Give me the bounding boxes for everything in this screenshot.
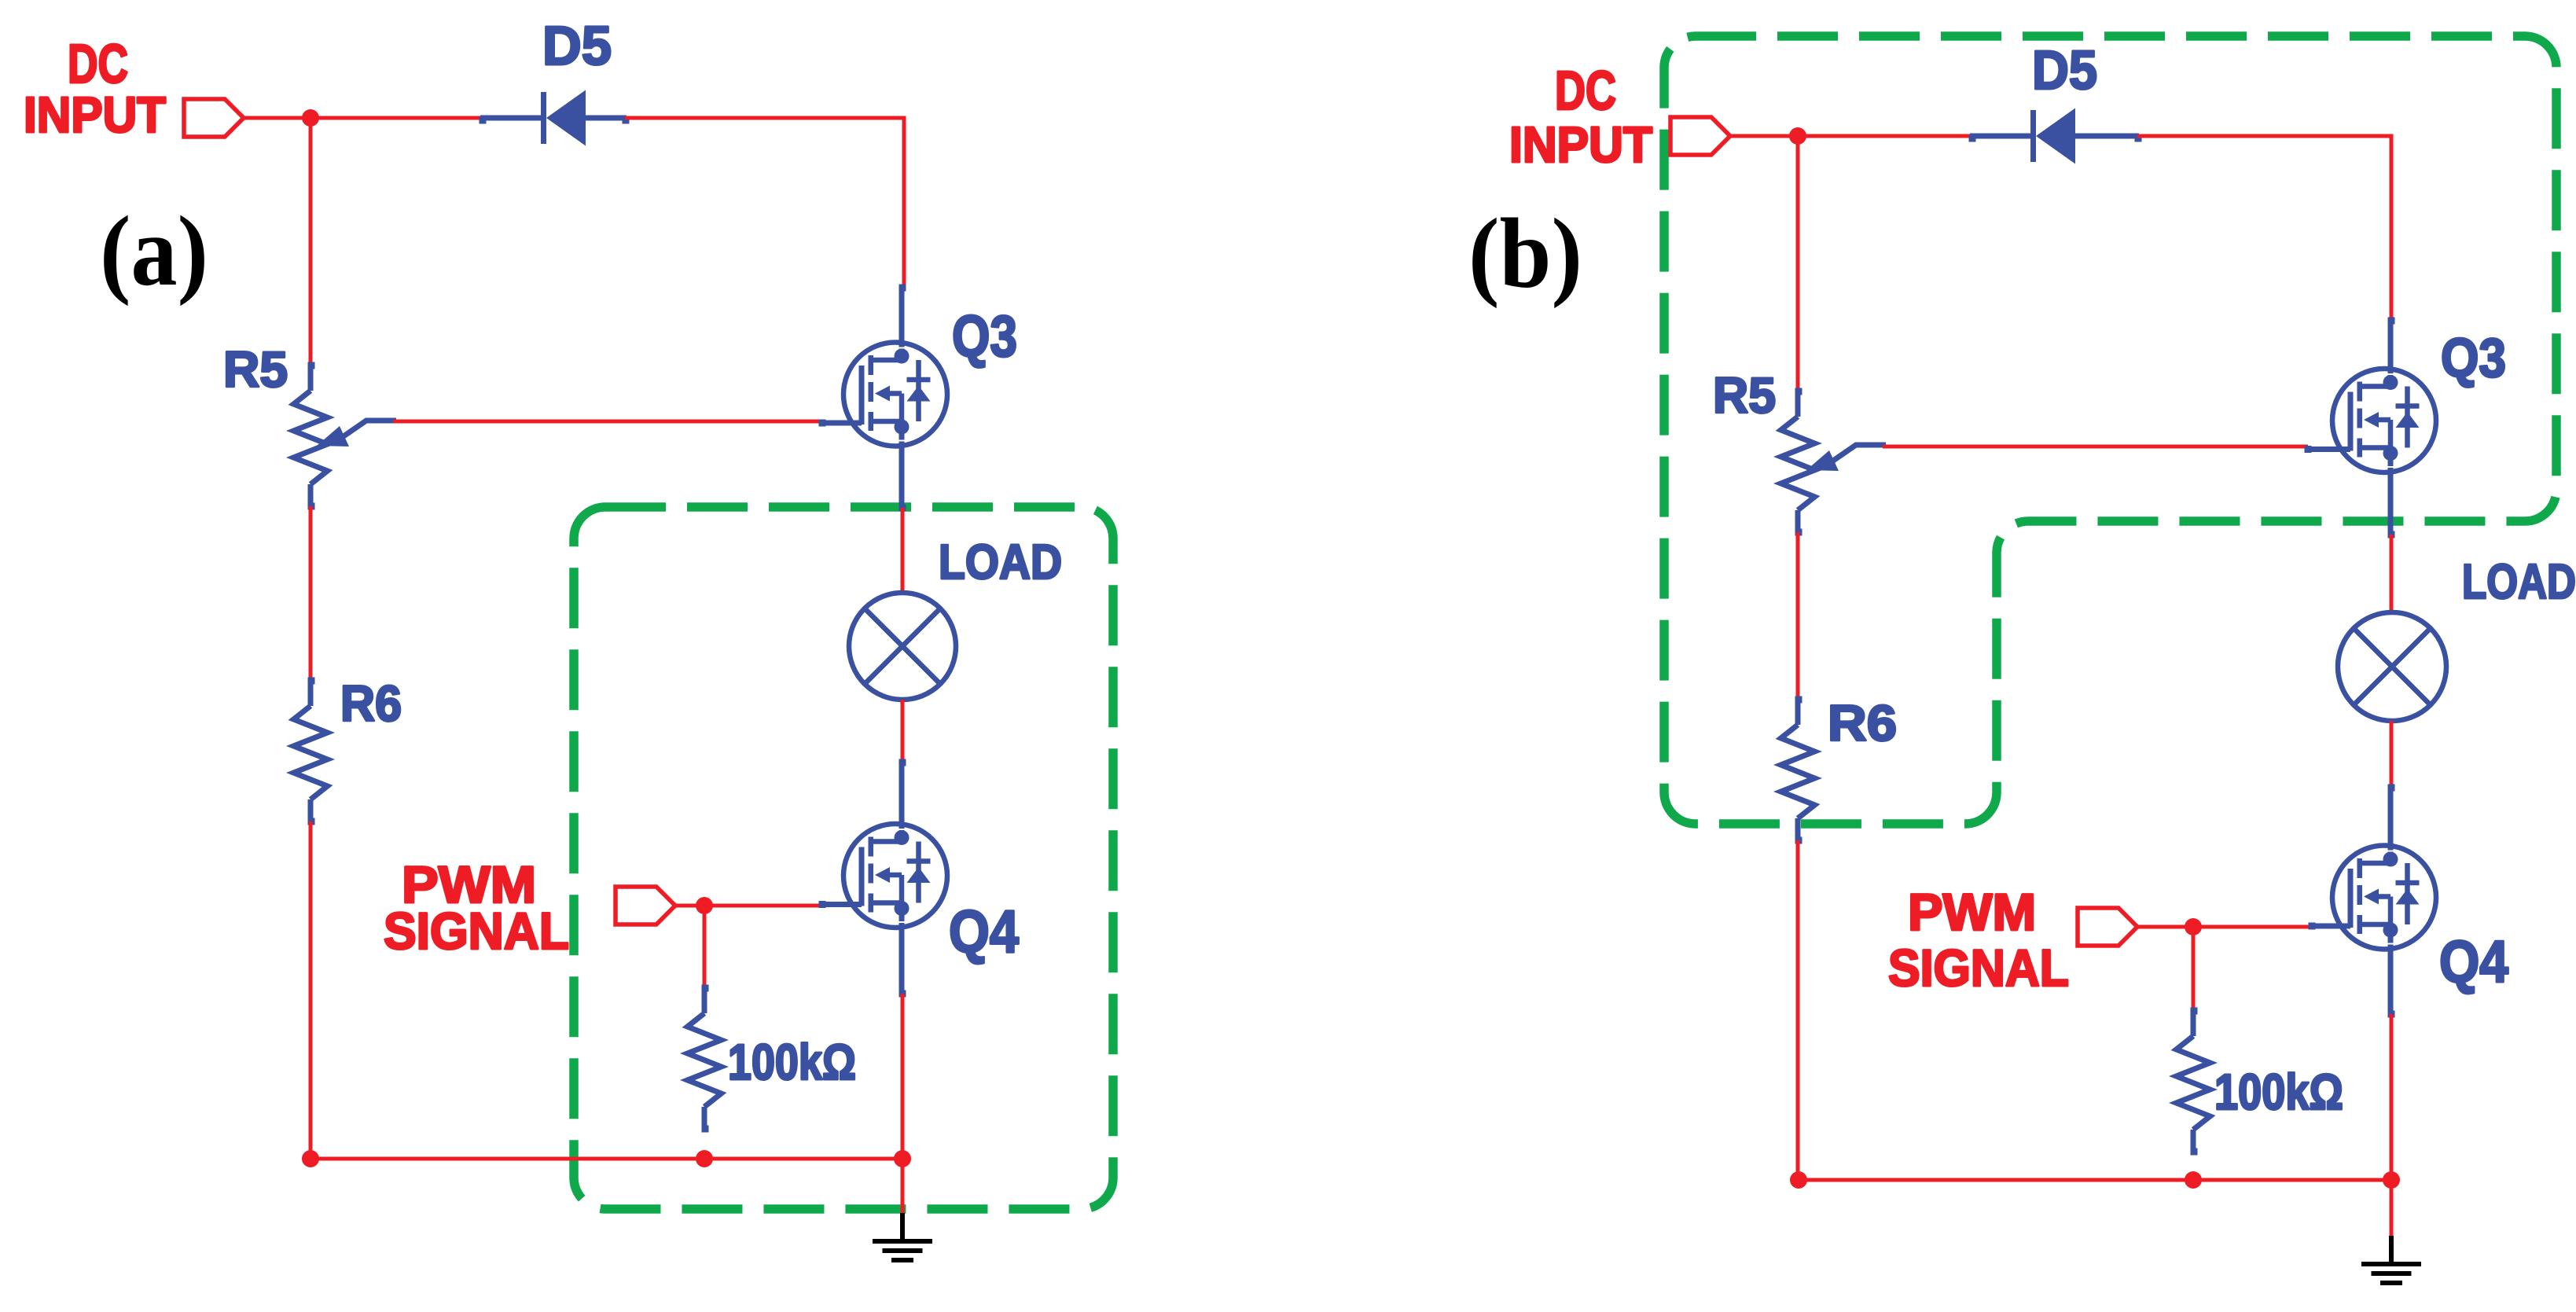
wire: R6 bottom to ground rail (a) xyxy=(309,821,313,1159)
PWM signal terminal (b) xyxy=(2078,908,2137,946)
svg-text:LOAD: LOAD xyxy=(2462,555,2576,609)
wire: node B down to 100k resistor (a) xyxy=(703,906,707,989)
svg-text:LOAD: LOAD xyxy=(939,535,1062,590)
svg-text:R5: R5 xyxy=(1713,367,1776,424)
wire: node C to D5 anode (b) xyxy=(1798,134,1973,138)
wire: LOAD to Q4 drain (a) xyxy=(901,700,905,763)
node: 100k to rail junction (b) xyxy=(2185,1171,2202,1189)
svg-text:Q3: Q3 xyxy=(952,303,1017,369)
resistor R6 (a) xyxy=(308,678,315,685)
svg-text:Q4: Q4 xyxy=(2439,928,2508,994)
wire: DC input terminal to node A (a) xyxy=(244,116,311,120)
R5 wiper arrow (a) xyxy=(344,421,396,436)
ground (b) xyxy=(2389,1236,2394,1263)
DC input terminal (a) xyxy=(184,99,244,137)
wire: Q3 source to LOAD (a) xyxy=(901,508,905,594)
DC input terminal (b) xyxy=(1670,117,1730,155)
svg-text:R5: R5 xyxy=(223,341,288,398)
svg-text:DC: DC xyxy=(1555,60,1616,121)
wire: D5 cathode to Q3 drain (a) xyxy=(625,118,904,286)
wire: Q3 source to LOAD (b) xyxy=(2390,535,2394,615)
wire: DC input terminal to node C (b) xyxy=(1730,134,1798,138)
ground rail wire (a) xyxy=(311,1157,902,1161)
svg-text:(a): (a) xyxy=(100,197,208,307)
R5 wiper arrow (b) xyxy=(1833,445,1886,461)
wire: R5 wiper to Q3 gate (a) xyxy=(393,420,822,424)
ground rail wire (b) xyxy=(1799,1178,2391,1182)
wire: R6 bottom to ground rail (b) xyxy=(1796,840,1800,1180)
svg-text:INPUT: INPUT xyxy=(24,86,166,143)
wire: PWM terminal to node D (b) xyxy=(2137,925,2193,929)
svg-text:Q4: Q4 xyxy=(949,899,1019,965)
wire: LOAD to Q4 drain (b) xyxy=(2390,721,2394,786)
node C: DC input junction (b) xyxy=(1789,127,1806,145)
node: Q4 source rail junction (b) xyxy=(2383,1171,2400,1189)
wire: R5 bottom to R6 top (b) xyxy=(1796,532,1800,701)
wire: D5 cathode to Q3 drain (b) xyxy=(2137,136,2391,319)
svg-text:INPUT: INPUT xyxy=(1509,116,1652,173)
node B: PWM junction (a) xyxy=(696,897,713,914)
wire: Q4 source to ground rail (b) xyxy=(2390,1014,2394,1180)
wire: node C down to R5 top (b) xyxy=(1796,136,1800,393)
svg-text:SIGNAL: SIGNAL xyxy=(384,902,569,960)
resistor 100kOhm (a) xyxy=(702,985,709,992)
resistor 100kOhm (b) xyxy=(2191,1008,2198,1015)
PWM signal terminal (a) xyxy=(616,887,675,924)
wire: node A to D5 anode (a) xyxy=(311,116,483,120)
transistor Q3 (a) xyxy=(843,343,947,447)
diode D5 (b) xyxy=(1969,135,1976,142)
transistor Q4 (a) xyxy=(843,824,947,928)
svg-text:D5: D5 xyxy=(2032,39,2097,101)
potentiometer R5 (a) xyxy=(308,362,315,369)
wire: node B to Q4 gate (a) xyxy=(704,904,822,908)
green dashed box around DC input stage (b) xyxy=(1664,36,2556,824)
svg-text:D5: D5 xyxy=(542,15,612,76)
svg-text:R6: R6 xyxy=(1828,695,1897,752)
svg-text:100kΩ: 100kΩ xyxy=(728,1034,856,1090)
transistor Q4 (b) xyxy=(2332,846,2436,950)
green dashed box around PWM low-side stage (a) xyxy=(574,507,1113,1209)
wire: Q4 source to ground rail (a) xyxy=(901,994,905,1159)
diode D5 (a) xyxy=(480,117,487,124)
potentiometer R5 (b) xyxy=(1795,388,1802,395)
transistor Q3 (b) xyxy=(2332,369,2436,472)
resistor R6 (b) xyxy=(1795,696,1802,704)
node: Q4 source rail junction (a) xyxy=(894,1150,911,1167)
svg-text:SIGNAL: SIGNAL xyxy=(1888,939,2069,997)
wire: rail to ground symbol (b) xyxy=(2390,1180,2394,1239)
ground (a) xyxy=(900,1213,905,1240)
svg-text:R6: R6 xyxy=(340,675,402,732)
svg-text:100kΩ: 100kΩ xyxy=(2214,1064,2343,1120)
node A: DC input junction (a) xyxy=(302,109,319,127)
wire: rail to ground symbol (a) xyxy=(901,1159,905,1219)
wire: R5 bottom to R6 top (a) xyxy=(309,506,313,682)
node: left rail corner junction (a) xyxy=(302,1150,319,1167)
svg-text:(b): (b) xyxy=(1468,199,1582,309)
wire: PWM terminal to node B (a) xyxy=(675,904,704,908)
node D: PWM junction (b) xyxy=(2185,918,2202,935)
svg-text:DC: DC xyxy=(68,33,128,94)
node: left rail corner junction (b) xyxy=(1790,1171,1807,1189)
lamp LOAD (a) xyxy=(849,593,956,700)
wire: R5 wiper to Q3 gate (b) xyxy=(1883,445,2308,449)
svg-text:Q3: Q3 xyxy=(2441,327,2506,388)
lamp LOAD (b) xyxy=(2338,612,2446,721)
wire: node A down to R5 top (a) xyxy=(309,118,313,367)
node: 100k to rail junction (a) xyxy=(696,1150,713,1167)
wire: node D down to 100k resistor (b) xyxy=(2192,927,2196,1012)
svg-text:PWM: PWM xyxy=(1908,883,2036,941)
wire: node D to Q4 gate (b) xyxy=(2193,925,2312,929)
